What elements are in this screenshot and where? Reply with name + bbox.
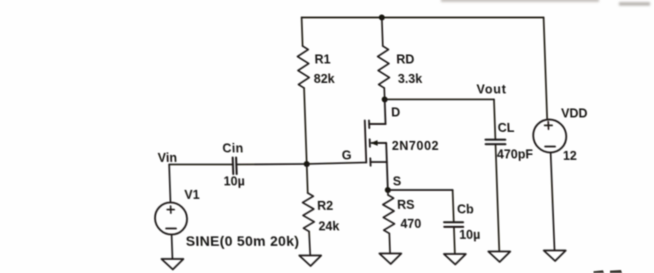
svg-text:Vout: Vout: [476, 83, 507, 97]
node supply junction dot: [379, 15, 385, 21]
svg-text:S: S: [393, 175, 402, 189]
svg-text:R1: R1: [314, 53, 331, 67]
svg-text:10µ: 10µ: [223, 175, 245, 189]
wire Cin to junction: [236, 163, 306, 166]
value 82k: [314, 72, 335, 86]
wire Vin input segment: [169, 164, 233, 166]
svg-text:Cb: Cb: [457, 203, 475, 217]
wire R1 top lead: [301, 18, 304, 47]
svg-text:R2: R2: [317, 199, 334, 213]
capacitor CL: [485, 140, 505, 145]
svg-text:D: D: [391, 106, 401, 120]
wire top supply rail: [302, 17, 544, 19]
svg-text:470pF: 470pF: [497, 148, 534, 162]
label VDD: [561, 107, 588, 121]
wire Cb top lead: [453, 190, 454, 222]
label RS: [397, 198, 415, 212]
wire gate lead: [307, 163, 367, 165]
scan artifact bottom right partial text: [594, 270, 623, 273]
value SINE(0 50m 20k): [186, 233, 300, 249]
svg-text:VDD: VDD: [561, 107, 588, 121]
resistor R1: [297, 46, 309, 88]
svg-text:12: 12: [563, 149, 577, 163]
value 470: [400, 217, 421, 231]
value 24k: [318, 220, 339, 234]
label G: [342, 149, 352, 163]
wire Cb bottom lead: [453, 227, 456, 254]
label D: [391, 106, 401, 120]
label CL: [498, 121, 516, 135]
label S: [393, 175, 402, 189]
value 12: [563, 149, 577, 163]
svg-text:RD: RD: [396, 53, 415, 67]
label Cin: [222, 142, 244, 156]
ground V1: [161, 259, 183, 270]
wire RD bottom lead: [383, 88, 385, 99]
wire R2 bottom lead: [309, 232, 310, 256]
svg-text:CL: CL: [498, 121, 516, 135]
label 2N7002: [392, 139, 440, 153]
wire VDD top lead: [544, 18, 548, 120]
svg-text:V1: V1: [184, 188, 200, 202]
label V1: [184, 188, 200, 202]
svg-text:SINE(0 50m 20k): SINE(0 50m 20k): [186, 233, 300, 249]
value 10u Cin: [223, 175, 245, 189]
wire R2 top lead: [307, 164, 308, 193]
resistor R2: [302, 193, 314, 231]
svg-text:G: G: [342, 149, 352, 163]
wire VDD bottom lead: [551, 153, 555, 251]
wire V1 top lead: [169, 165, 170, 203]
ground R2: [299, 256, 321, 267]
value 3.3k: [398, 72, 423, 86]
wire source to Cb: [388, 189, 453, 191]
svg-text:2N7002: 2N7002: [392, 139, 440, 153]
capacitor Cb: [444, 222, 463, 227]
ground RS: [379, 254, 401, 265]
plus sign V1: [167, 206, 174, 213]
scan smudge top edge: [441, 0, 650, 6]
ground Cb: [444, 254, 466, 265]
source VDD circle: [533, 120, 567, 153]
ground CL: [488, 252, 510, 263]
capacitor Cin: [233, 158, 237, 175]
label RD: [396, 53, 415, 67]
svg-text:10µ: 10µ: [459, 228, 481, 242]
plus sign VDD: [544, 122, 552, 130]
node source dot: [385, 187, 391, 193]
resistor RS: [382, 190, 395, 254]
svg-text:3.3k: 3.3k: [398, 72, 423, 86]
minus sign VDD: [545, 146, 555, 148]
node gate junction dot: [304, 161, 310, 167]
wire RD top lead: [381, 18, 384, 47]
value 10u Cb: [459, 228, 481, 242]
wire V1 bottom lead: [171, 235, 174, 260]
label Cb: [457, 203, 475, 217]
wire CL top lead: [494, 99, 495, 139]
node drain dot: [382, 96, 388, 102]
svg-text:Vin: Vin: [158, 151, 178, 165]
resistor RD: [377, 46, 389, 88]
wire CL bottom lead: [496, 144, 500, 251]
svg-text:470: 470: [400, 217, 421, 231]
svg-text:Cin: Cin: [222, 142, 244, 156]
label Vin: [158, 151, 178, 165]
svg-text:24k: 24k: [318, 220, 339, 234]
value 470pF: [497, 148, 534, 162]
svg-text:82k: 82k: [314, 72, 335, 86]
wire R1 bottom lead: [304, 88, 307, 164]
ground VDD: [544, 251, 566, 262]
wire drain to Vout: [385, 98, 494, 100]
label Vout: [476, 83, 507, 97]
source V1 circle: [154, 203, 187, 235]
label R1: [314, 53, 331, 67]
transistor Q1 2N7002: [364, 99, 388, 190]
svg-text:RS: RS: [397, 198, 415, 212]
label R2: [317, 199, 334, 213]
minus sign V1: [166, 228, 176, 230]
